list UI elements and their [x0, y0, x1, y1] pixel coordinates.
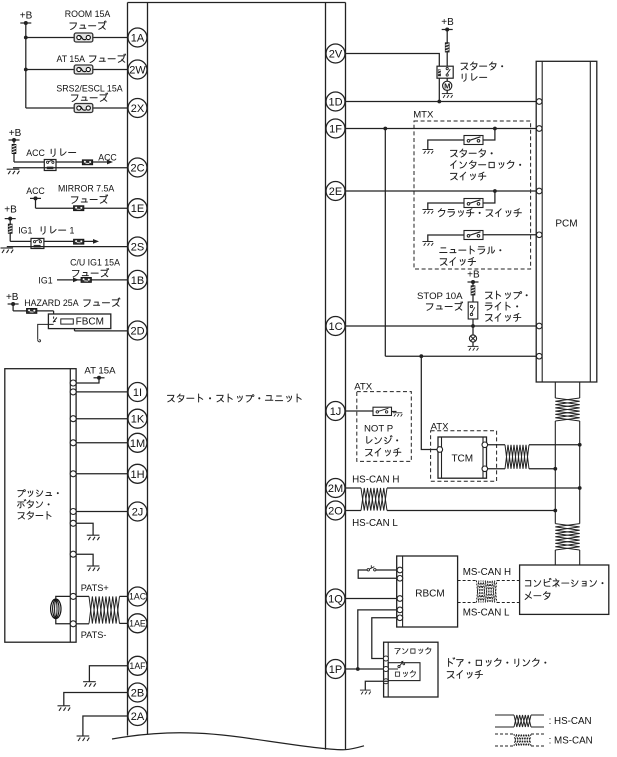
svg-text:1I: 1I — [133, 387, 142, 399]
wire hazard feed — [12, 304, 14, 311]
ATX dashed box 2 — [431, 431, 497, 481]
wire PATS- to twist — [76, 623, 89, 625]
svg-text:2M: 2M — [328, 483, 343, 495]
wire to pin 2W — [26, 69, 128, 71]
svg-text:MS-CAN L: MS-CAN L — [463, 607, 510, 618]
svg-text:TCM: TCM — [451, 454, 473, 465]
svg-text:1Q: 1Q — [328, 594, 343, 606]
wire +B bus vertical — [25, 23, 27, 108]
connector pin 2O — [326, 501, 345, 520]
+B terminal — [20, 22, 31, 24]
svg-text:1: 1 — [70, 226, 75, 236]
svg-text:1A: 1A — [131, 33, 145, 45]
relay IG1 — [31, 238, 44, 248]
ATX dashed box 1 — [357, 392, 412, 462]
pbs pin 2J — [70, 509, 76, 515]
svg-text:RBCM: RBCM — [415, 588, 444, 599]
label combination meter — [525, 581, 530, 586]
svg-text:PATS-: PATS- — [81, 630, 107, 640]
wire RBCM out1 to 1P line — [358, 610, 397, 669]
node HS-CAN H trunk — [578, 486, 582, 490]
svg-text:2X: 2X — [131, 103, 145, 115]
pbs pin 1K — [70, 416, 76, 422]
wire antenna to PATS- — [56, 619, 72, 624]
svg-text:2O: 2O — [328, 506, 343, 518]
FBCM box — [48, 314, 110, 329]
label stop light switch — [485, 292, 492, 299]
wire 1F to PCM — [345, 128, 536, 130]
wire to pin 2X — [26, 107, 128, 109]
connector pin 1AE — [128, 614, 147, 633]
svg-text:1P: 1P — [329, 664, 342, 676]
svg-text:+B: +B — [4, 204, 17, 215]
svg-text:2J: 2J — [132, 507, 144, 519]
label clutch switch — [438, 209, 445, 217]
RBCM input switch — [367, 569, 369, 571]
fuse SRS2/ESCL 15A — [74, 104, 93, 113]
pbs pin 1H — [70, 471, 76, 477]
svg-text:MTX: MTX — [413, 110, 434, 121]
arrow into fuse 1B — [73, 278, 79, 283]
stop light bulb — [469, 335, 476, 342]
wire door switch ground — [365, 681, 388, 690]
connector pin 2V — [326, 44, 345, 63]
svg-text:1F: 1F — [329, 124, 342, 136]
wire 1C to stop bulb — [472, 326, 474, 335]
twisted pair TCM — [505, 445, 529, 469]
push-button start box — [5, 369, 76, 643]
wire to pin 2C — [13, 167, 128, 169]
wire interlock left to ground — [428, 140, 464, 150]
wire starter relay to 1D line — [438, 78, 440, 101]
connector pin 1K — [128, 409, 147, 428]
pbs pin PATS+ — [70, 593, 76, 599]
svg-text:ACC: ACC — [26, 186, 45, 196]
ground pbs 1 — [87, 535, 100, 540]
arrow IG1 output — [93, 239, 99, 244]
HS-CAN trunk lower — [554, 550, 556, 565]
clutch switch — [464, 199, 483, 208]
svg-text:: MS-CAN: : MS-CAN — [549, 735, 593, 746]
pbs pin PATS- — [70, 621, 76, 627]
ACC terminal mirror — [30, 197, 41, 199]
node stop switch 1C — [471, 324, 475, 328]
svg-text:1C: 1C — [328, 321, 342, 333]
fuse IG1 feed — [9, 219, 11, 224]
svg-text:ROOM 15A: ROOM 15A — [65, 9, 111, 19]
HS-CAN trunk middle — [554, 421, 556, 524]
wire 2O to twist — [345, 510, 361, 512]
immobilizer antenna coil — [51, 599, 61, 619]
wire 1D to PCM — [345, 101, 536, 103]
pbs pin 1M — [70, 440, 76, 446]
svg-text:2C: 2C — [130, 163, 144, 175]
+B terminal hazard — [8, 303, 19, 305]
connector pin 1Q — [326, 589, 345, 608]
svg-text:+B: +B — [6, 292, 19, 303]
AT 15A terminal — [94, 377, 105, 379]
connector pin 2J — [128, 502, 147, 521]
wire antenna to PATS+ — [56, 596, 72, 599]
node TCM branch — [419, 354, 423, 358]
fuse starter feed — [446, 30, 448, 43]
wire interlock to 1F line — [483, 129, 495, 141]
svg-text:MIRROR 7.5A: MIRROR 7.5A — [58, 183, 114, 193]
svg-text:AT 15A: AT 15A — [57, 54, 86, 64]
ground NOT P — [393, 413, 403, 417]
connector pin 2X — [128, 99, 147, 118]
wire pbs ground 1 — [76, 523, 93, 535]
connector pin 1AC — [128, 587, 147, 606]
wire IG1 relay to arrow — [44, 240, 95, 242]
PCM box — [536, 61, 597, 382]
relay ACC — [44, 160, 56, 171]
RBCM switch loop wire — [358, 570, 397, 578]
svg-text:SRS2/ESCL 15A: SRS2/ESCL 15A — [56, 83, 122, 93]
wire 1AF to ground — [89, 666, 128, 682]
svg-text:1H: 1H — [130, 469, 144, 481]
svg-text:1K: 1K — [131, 414, 145, 426]
pbs pin AT — [70, 380, 76, 386]
inline connector ACC — [82, 160, 92, 165]
wire MS-CAN H — [458, 580, 477, 582]
twisted pair trunk 1 — [555, 398, 579, 421]
connector pin 2M — [326, 479, 345, 498]
svg-text:+B: +B — [441, 17, 454, 28]
node junction 1A feed — [24, 36, 28, 40]
node TCM L trunk — [553, 467, 557, 471]
wire fuse to relay — [14, 161, 44, 163]
svg-text:MS-CAN H: MS-CAN H — [463, 567, 511, 578]
svg-text:HS-CAN L: HS-CAN L — [352, 518, 398, 529]
wire to pin 1A — [26, 37, 128, 39]
door lock switch box — [384, 642, 438, 697]
connector pin 2A — [128, 707, 147, 726]
wire RBCM out2 to unlock — [372, 618, 397, 659]
wire pbs to 1M — [76, 442, 128, 444]
wire PATS+ to twist — [76, 595, 89, 597]
ground 2A — [77, 736, 90, 741]
wire to pin 2S — [7, 246, 128, 248]
wire 2A to ground — [83, 716, 128, 736]
svg-text:STOP 10A: STOP 10A — [417, 291, 463, 302]
connector pin 2D — [128, 321, 147, 340]
wire ACC to pin 1E — [35, 198, 37, 208]
RBCM pin 1Q — [397, 596, 403, 602]
twisted pair MS-CAN — [476, 581, 496, 603]
svg-text:2A: 2A — [131, 711, 145, 723]
NOT P range switch — [373, 407, 392, 415]
wire pbs to 2J — [76, 511, 128, 513]
RBCM pin sw1 — [397, 567, 403, 573]
ground starter motor — [442, 94, 453, 98]
transistor in FBCM — [53, 317, 57, 323]
node 1F branch down — [383, 127, 387, 131]
wire 2M to twist — [345, 487, 361, 489]
starter interlock switch — [464, 136, 483, 145]
svg-text:HS-CAN H: HS-CAN H — [352, 474, 399, 485]
wire FBCM emitter to connector stub — [38, 324, 54, 339]
ground pbs 2 — [87, 566, 100, 571]
combination meter box — [520, 565, 609, 614]
RBCM pin out1 — [397, 607, 403, 613]
wire y356 to PCM — [385, 355, 536, 357]
label unlock — [395, 648, 400, 653]
wire neutral to PCM — [483, 234, 536, 236]
svg-text:ATX: ATX — [354, 381, 373, 392]
wire branch down to TCM — [421, 356, 437, 449]
wire twist to 1AE — [120, 622, 129, 624]
ground 1AF — [83, 682, 96, 687]
inline connector IG1 — [74, 239, 84, 244]
door switch lever — [388, 668, 398, 670]
PCM pin neutral — [536, 232, 542, 238]
MTX dashed box — [414, 121, 531, 269]
connector pin 1H — [128, 464, 147, 483]
node junction 2W feed — [24, 68, 28, 72]
twisted pair PATS — [89, 596, 120, 623]
svg-text:1B: 1B — [131, 275, 144, 287]
connector pin 1C — [326, 317, 345, 336]
svg-text:2V: 2V — [329, 49, 343, 61]
connector pin 2W — [128, 60, 147, 79]
node 1P junction — [356, 667, 360, 671]
connector pin 1B — [128, 270, 147, 289]
connector pin 1M — [128, 433, 147, 452]
wire 1J to NOT P switch — [345, 410, 373, 412]
start-stop unit connector body — [128, 2, 346, 4]
connector pin 1I — [128, 383, 147, 402]
connector pin 1D — [326, 92, 345, 111]
svg-text:1AE: 1AE — [129, 619, 146, 629]
pbs pin gnd1 — [70, 520, 76, 526]
wire MS-CAN L — [458, 602, 477, 604]
starter motor — [443, 81, 452, 90]
svg-text:AT 15A: AT 15A — [84, 365, 116, 376]
svg-text:M: M — [444, 82, 450, 91]
wire 1Q to RBCM — [345, 598, 397, 600]
fuse STOP 10A — [472, 282, 474, 286]
legend HS-CAN lines — [495, 714, 514, 716]
wire TCM H to trunk — [529, 444, 580, 446]
RBCM pin sw2 — [397, 576, 403, 582]
connector pin 2B — [128, 683, 147, 702]
wire 1P to switch — [345, 668, 384, 670]
node TCM H trunk — [578, 443, 582, 447]
RBCM box — [397, 556, 458, 627]
fuse MIRROR 7.5A — [74, 206, 84, 211]
node 2E clutch — [493, 189, 497, 193]
svg-text:+B: +B — [9, 128, 22, 139]
svg-text:2D: 2D — [130, 326, 144, 338]
svg-text:PATS+: PATS+ — [81, 583, 109, 593]
wire twist to 1AC — [120, 595, 129, 597]
wire pbs ground 2 — [76, 554, 93, 566]
svg-text:PCM: PCM — [555, 219, 577, 230]
label door lock link switch — [449, 658, 455, 667]
wire starter relay to motor — [446, 78, 448, 81]
wire TCM L to trunk — [529, 468, 555, 470]
wire clutch left to ground — [428, 203, 464, 210]
wire NOT P to ground — [392, 411, 397, 413]
svg-text:: HS-CAN: : HS-CAN — [549, 716, 592, 727]
wire pbs to 1K — [76, 418, 128, 420]
connector pin 1AF — [128, 656, 147, 675]
label lock — [395, 672, 399, 676]
fuse C/U IG1 15A — [81, 277, 91, 282]
+B terminal ACC relay — [9, 139, 20, 141]
legend MS-CAN twist — [514, 734, 531, 746]
ground neutral — [422, 242, 433, 246]
wire 2B to ground — [64, 693, 128, 706]
pbs pin gnd2 — [70, 551, 76, 557]
arrow ACC — [107, 160, 113, 165]
wire 1F branch vertical — [384, 129, 386, 357]
svg-text:HAZARD 25A: HAZARD 25A — [24, 298, 78, 308]
svg-text:ACC: ACC — [26, 148, 45, 158]
svg-text:1J: 1J — [330, 406, 342, 418]
HS-CAN trunk upper — [554, 382, 556, 398]
wire neutral left to ground — [428, 235, 464, 242]
TCM pin left — [437, 447, 443, 453]
door lock inner box — [388, 663, 420, 681]
wire FBCM to pin 2D — [74, 329, 76, 331]
connector pin 1F — [326, 119, 345, 138]
label starter relay — [461, 63, 468, 70]
torn-edge wave — [112, 733, 364, 750]
label neutral switch — [440, 248, 447, 253]
svg-text:2S: 2S — [131, 242, 144, 254]
svg-text:C/U IG1 15A: C/U IG1 15A — [70, 257, 120, 267]
connector pin 2C — [128, 158, 147, 177]
legend MS-CAN lines — [495, 733, 514, 735]
TCM pin right 1 — [482, 442, 488, 448]
PCM pin 1D — [536, 99, 542, 105]
svg-text:1M: 1M — [130, 438, 145, 450]
PCM pin 1F — [536, 126, 542, 132]
wire bulb to ground — [472, 342, 474, 346]
connector pin 1J — [326, 402, 345, 421]
svg-text:+B: +B — [467, 270, 480, 281]
wire IG1 to pin 1B — [57, 279, 128, 281]
wire 2V to starter relay — [345, 54, 439, 67]
wire fuse to IG1 relay — [10, 240, 31, 242]
svg-text:1D: 1D — [328, 97, 342, 109]
wire 1C to PCM — [345, 325, 536, 327]
ground interlock — [422, 150, 433, 154]
svg-text:2E: 2E — [329, 186, 342, 198]
+B terminal stop — [468, 281, 479, 283]
svg-text:1E: 1E — [131, 203, 144, 215]
ground door switch — [360, 690, 371, 694]
door switch pin ground — [383, 679, 388, 684]
svg-text:2W: 2W — [129, 65, 146, 77]
node HS-CAN L trunk — [553, 509, 557, 513]
legend HS-CAN twist — [514, 715, 531, 727]
ground ACC relay — [7, 169, 20, 174]
RBCM pin out2 — [397, 615, 403, 621]
svg-text:IG1: IG1 — [38, 276, 52, 286]
ground stop bulb — [468, 346, 479, 350]
fuse AT 15A — [74, 65, 93, 74]
ground IG1 relay — [1, 248, 14, 253]
+B terminal starter — [442, 29, 453, 31]
ground clutch — [422, 210, 433, 214]
twisted pair HS-CAN unit — [361, 488, 387, 511]
svg-text:NOT P: NOT P — [364, 424, 393, 435]
ground 2B — [58, 706, 71, 711]
node 1F interlock — [493, 127, 497, 131]
wire 2E to PCM — [345, 190, 536, 192]
pbs pin 1I — [70, 389, 76, 395]
PCM pin 1C — [536, 323, 542, 329]
door switch pin unlock — [383, 656, 388, 661]
TCM box — [438, 437, 487, 478]
label push-button-start — [18, 490, 26, 497]
label starter interlock switch — [450, 150, 457, 157]
svg-text:+B: +B — [20, 11, 33, 22]
neutral switch — [464, 231, 483, 240]
twisted pair trunk 2 — [555, 524, 579, 550]
svg-text:1AC: 1AC — [129, 592, 147, 602]
svg-text:FBCM: FBCM — [76, 317, 104, 328]
wire TCM L to twist — [488, 468, 505, 470]
door switch pin common — [383, 667, 388, 672]
fuse ROOM 15A — [74, 33, 93, 42]
relay starter — [437, 66, 453, 78]
wire pbs to 1H — [76, 473, 128, 475]
wire relay to ACC arrow — [56, 161, 109, 163]
wire motor to ground — [446, 90, 448, 93]
stop light switch — [468, 302, 478, 319]
node 1D starter junction — [437, 100, 441, 104]
svg-text:2B: 2B — [131, 688, 144, 700]
svg-text:IG1: IG1 — [18, 226, 32, 236]
fuse ACC feed — [13, 140, 15, 144]
wire TCM H to twist — [488, 444, 505, 446]
connector pin 2E — [326, 182, 345, 201]
PCM pin 2E — [536, 188, 542, 194]
+B terminal IG1 — [5, 218, 16, 220]
connector pin 1P — [326, 660, 345, 679]
TCM pin right 2 — [482, 466, 488, 472]
unit label start-stop-unit — [167, 395, 174, 402]
connector pin 1E — [128, 199, 147, 218]
wire AT15A pin — [76, 378, 99, 383]
wire pbs to 1I — [76, 391, 128, 393]
wire clutch to 2E line — [483, 191, 495, 203]
connector pin 1A — [128, 28, 147, 47]
fuse HAZARD 25A — [27, 308, 37, 313]
wire HS-CAN L to trunk — [387, 510, 555, 512]
PCM pin y356 — [536, 353, 542, 359]
wire HS-CAN H to trunk — [387, 487, 580, 489]
connector pin 2S — [128, 237, 147, 256]
svg-text:1AF: 1AF — [129, 661, 146, 671]
